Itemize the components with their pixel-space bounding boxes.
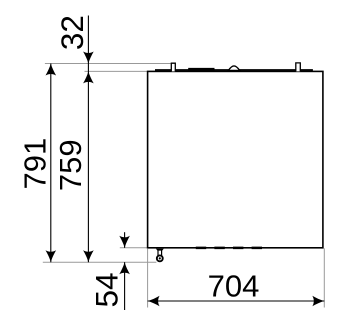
thick lid bar [188,68,214,71]
wheel [157,255,163,261]
extension line cabinet-bottom left (y=247.8) [120,247,148,249]
arrow 791 bottom [46,250,57,262]
bottom dashed strip [196,247,262,250]
arrow 704 right [312,296,324,307]
svg-text:791: 791 [17,138,52,190]
floor line (y=262.2) [43,261,157,263]
right tab [296,63,301,72]
hinge hump [228,66,239,71]
arrow 704 left [148,296,160,307]
svg-text:54: 54 [89,272,125,307]
cabinet outline [148,71,323,247]
arrow 759 top (tip at top-of-cabinet line) [83,71,94,83]
dimension line 704 [148,300,325,302]
svg-text:759: 759 [53,139,88,191]
extension line top-of-tabs (y=63.5) [45,63,171,65]
lid line on top [155,70,312,72]
right vertical extension for 704 [323,248,325,307]
left vertical extension for 704 [147,249,149,308]
arrow 791 top [46,64,57,76]
left tab [171,63,175,71]
wheel stem [158,250,162,256]
svg-text:704: 704 [208,269,260,304]
arrow 32 down (tip at top-of-tabs line) [83,52,94,64]
dimension line 759 / 32 [87,16,89,263]
dimension 54 upper leader [124,232,126,248]
arrow 54 up (tip at floor line) [119,262,130,274]
wheel hub dot [159,257,161,259]
arrow 54 down (tip at cabinet bottom) [119,236,130,248]
svg-text:32: 32 [54,15,90,50]
extension line top-of-cabinet (y=71.4) [85,70,148,72]
dimension 54 lower leader [124,262,126,310]
arrow 759 bottom [83,250,94,262]
dimension line 791 [50,64,52,263]
wheel mounting plate [156,249,164,251]
